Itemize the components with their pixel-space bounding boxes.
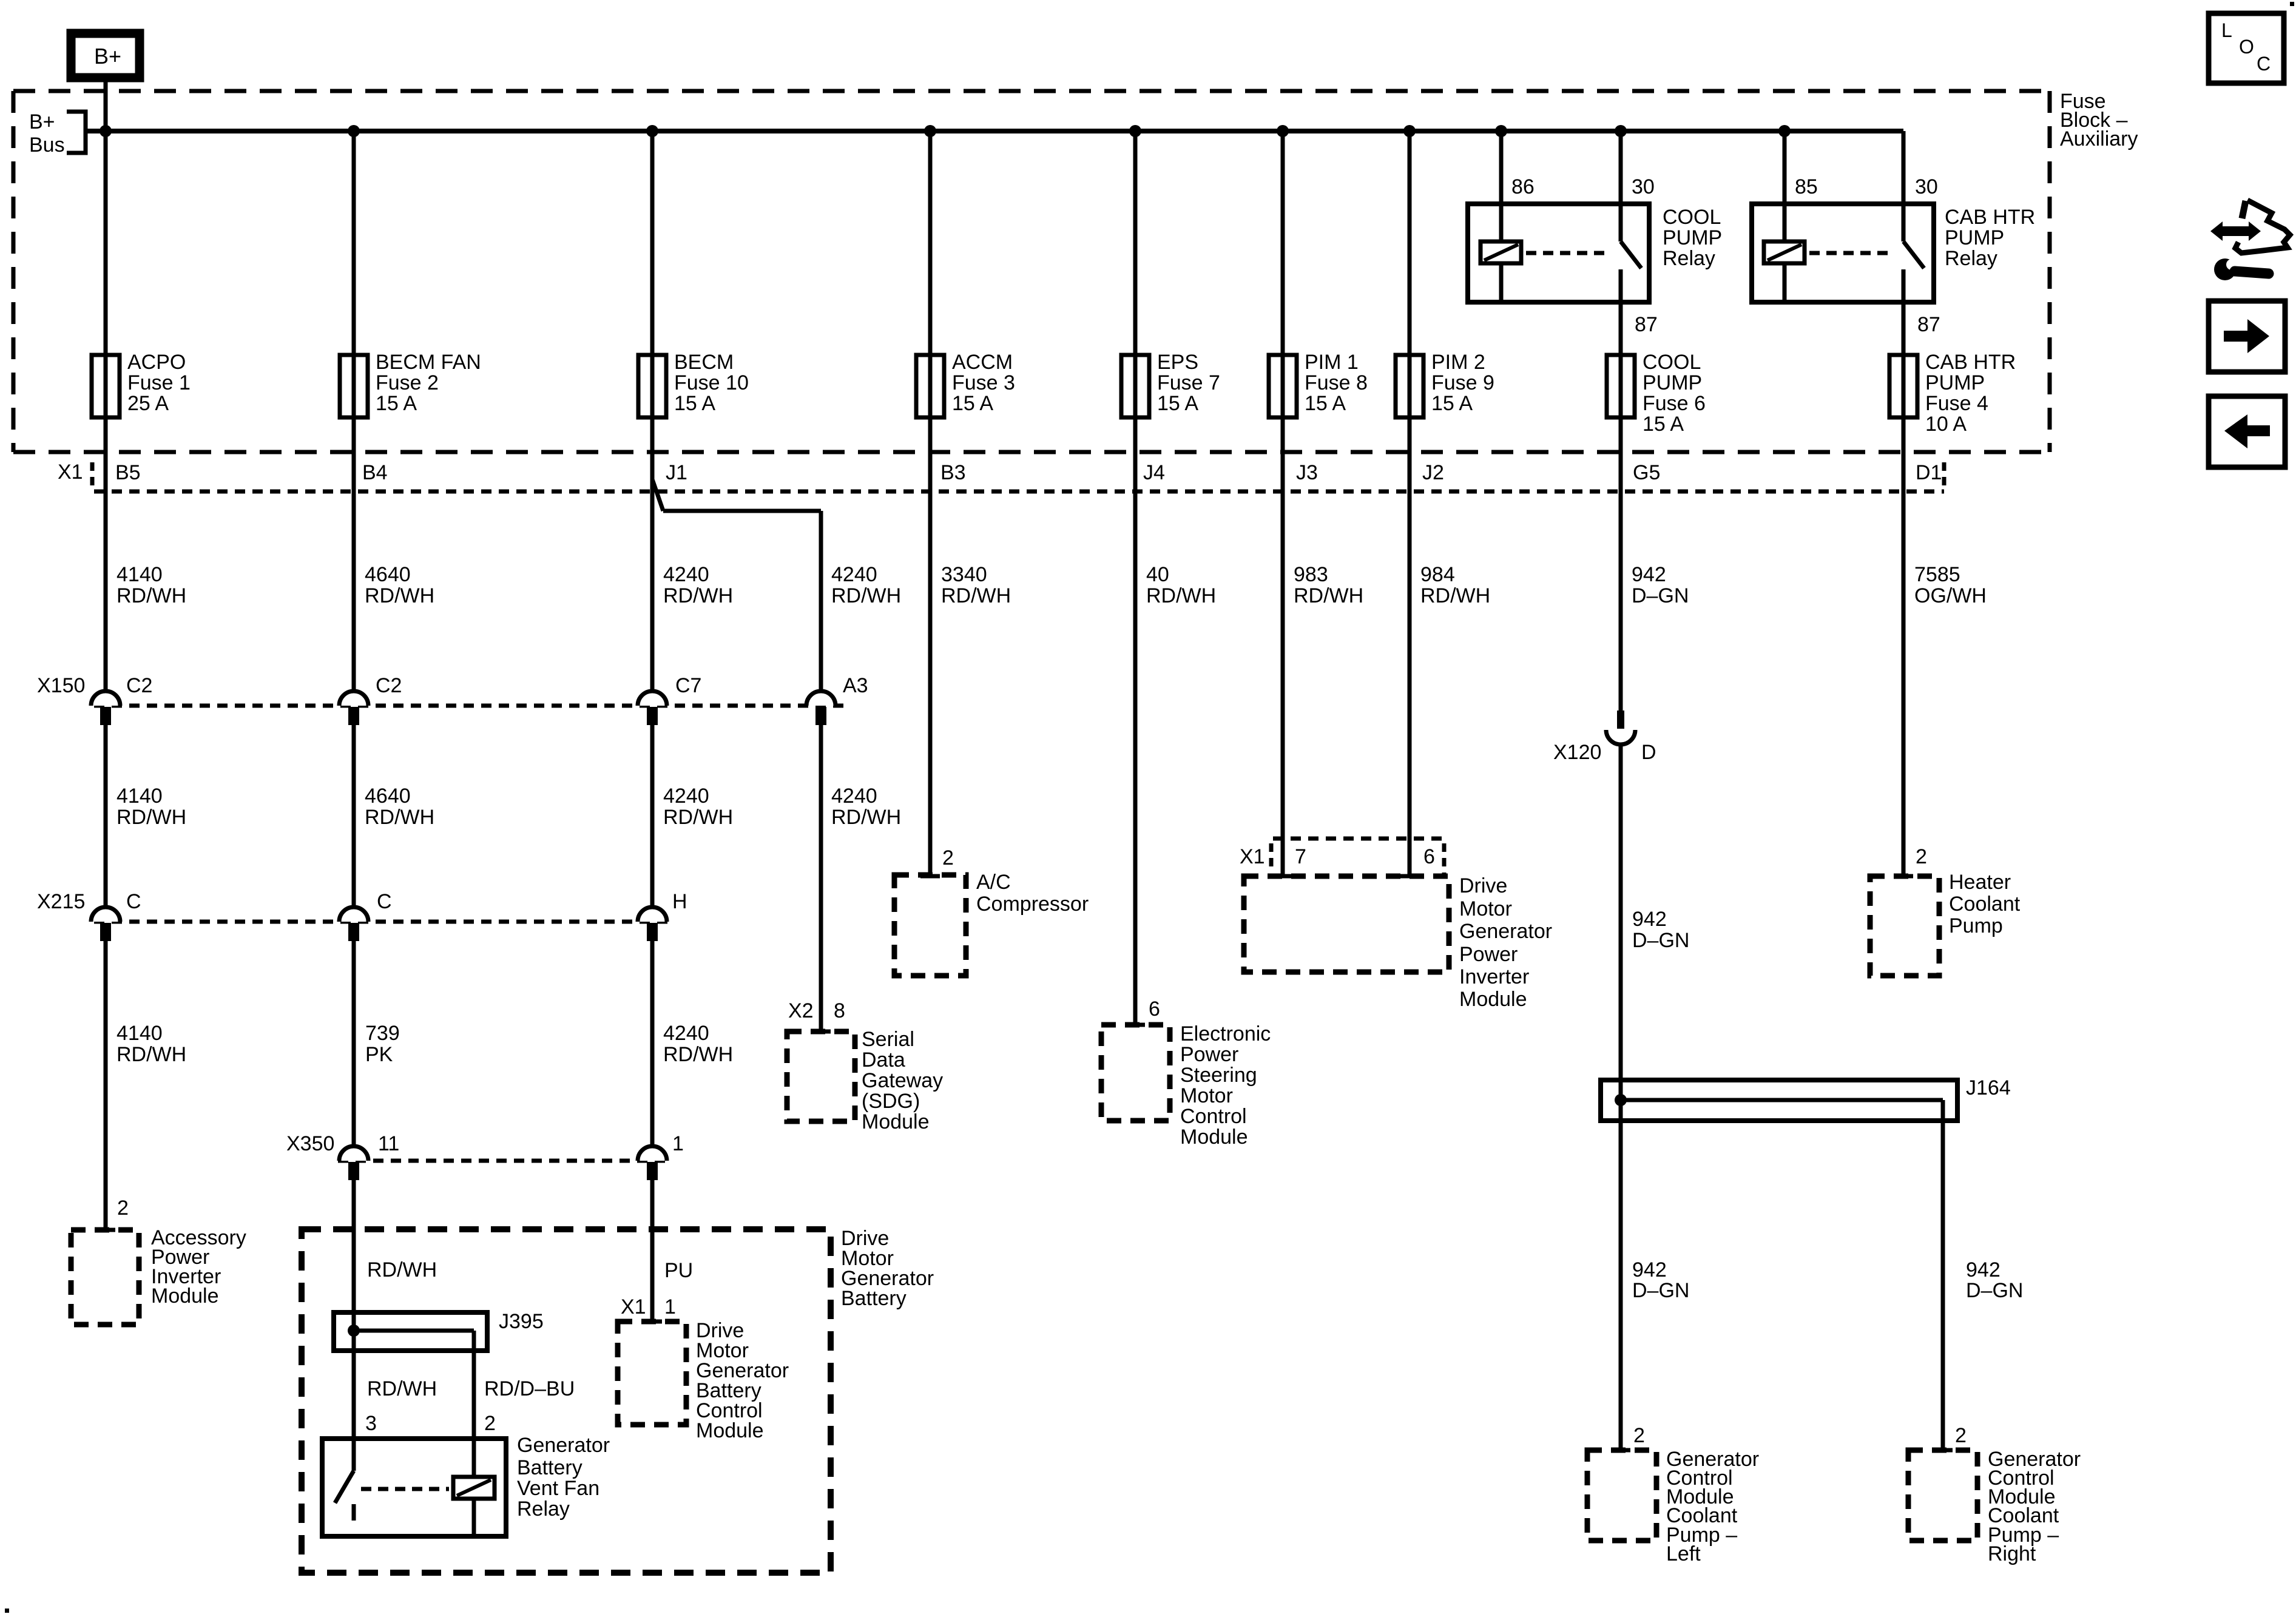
- svg-text:BECM FAN: BECM FAN: [376, 351, 481, 374]
- pin label X2 8 (SDG module): [788, 999, 845, 1022]
- relay Generator Battery Vent Fan box: [322, 1439, 506, 1536]
- svg-text:H: H: [672, 890, 687, 913]
- pin label 2 (pump right): [1955, 1424, 1967, 1447]
- svg-text:C7: C7: [675, 674, 701, 697]
- label circuit 40 RD/WH: [1146, 563, 1216, 607]
- pin label 86: [1511, 175, 1535, 198]
- junction on bus (cab relay coil): [1778, 125, 1791, 137]
- label A/C Compressor: [976, 871, 1089, 916]
- connector X150 terminal C2 (4640): [339, 691, 368, 725]
- svg-text:Battery: Battery: [517, 1456, 582, 1479]
- label Drive Motor Generator Power Inverter Module: [1459, 874, 1552, 1011]
- svg-text:942: 942: [1632, 563, 1666, 586]
- label circuit 4140 RD/WH (top): [116, 563, 186, 607]
- svg-text:Module: Module: [151, 1284, 219, 1308]
- svg-text:6: 6: [1423, 845, 1435, 868]
- svg-text:942: 942: [1632, 1258, 1667, 1281]
- label circuit 3340 RD/WH: [941, 563, 1011, 607]
- svg-text:C: C: [2257, 53, 2271, 75]
- svg-text:Serial: Serial: [862, 1028, 914, 1051]
- relay switch lower stub (vent fan relay): [352, 1504, 356, 1521]
- svg-text:Vent Fan: Vent Fan: [517, 1477, 599, 1500]
- relay coil (vent fan relay): [453, 1477, 495, 1499]
- svg-text:ACCM: ACCM: [952, 351, 1013, 374]
- wire relay coil feed 86 (cool pump): [1499, 131, 1504, 302]
- svg-text:Electronic: Electronic: [1180, 1022, 1271, 1045]
- wire RD/WH X350 into battery to vent fan relay: [352, 1180, 356, 1471]
- label circuit 942 D-GN (bottom right): [1966, 1258, 2023, 1302]
- svg-text:J4: J4: [1143, 461, 1165, 484]
- svg-text:Power: Power: [1459, 943, 1518, 966]
- pin label C (X215 wire1): [126, 890, 141, 913]
- pin label G5 (X1 row): [1633, 461, 1660, 484]
- svg-text:C2: C2: [126, 674, 152, 697]
- svg-text:15 A: 15 A: [674, 392, 715, 415]
- svg-text:2: 2: [484, 1412, 496, 1435]
- label fuse Fuse 1 25 A: [127, 351, 191, 415]
- fuse F6 COOL PUMP: [1607, 355, 1635, 417]
- svg-text:Gateway: Gateway: [862, 1069, 943, 1092]
- label fuse Fuse 2 15 A: [376, 351, 481, 415]
- svg-text:7585: 7585: [1914, 563, 1960, 586]
- svg-text:4640: 4640: [365, 785, 411, 808]
- pin label A3 (X150): [843, 674, 868, 697]
- svg-text:RD/WH: RD/WH: [831, 584, 901, 607]
- wire relay 30 feed (cab htr pump): [1902, 131, 1906, 241]
- svg-text:D–GN: D–GN: [1632, 584, 1689, 607]
- relay switch blade (vent fan relay): [335, 1471, 354, 1503]
- svg-text:J164: J164: [1966, 1076, 2011, 1099]
- svg-text:Fuse 4: Fuse 4: [1925, 392, 1988, 415]
- junction on bus (cool relay coil): [1495, 125, 1507, 137]
- pin label 87 (cab htr pump relay): [1917, 313, 1940, 336]
- svg-text:C: C: [377, 890, 392, 913]
- pin label 85: [1795, 175, 1818, 198]
- pin label C2 (X150 wire1): [126, 674, 152, 697]
- svg-text:4240: 4240: [663, 563, 709, 586]
- wire branch 4240 RD/WH down to X150 A3: [819, 511, 823, 691]
- svg-text:Generator: Generator: [517, 1434, 610, 1457]
- label Electronic Power Steering Motor Control Module: [1180, 1022, 1271, 1149]
- label circuit 942 D-GN (bottom left): [1632, 1258, 1689, 1302]
- label circuit 4240 RD/WH (branch top): [831, 563, 901, 607]
- wire B+ bus: [86, 129, 1903, 133]
- label Generator Control Module Coolant Pump - Right: [1988, 1448, 2081, 1565]
- junction on bus (fuse3): [924, 125, 936, 137]
- label connector X1: [58, 461, 83, 484]
- fuse F7 EPS: [1121, 355, 1149, 417]
- label wire RD/WH (above J395): [367, 1258, 437, 1281]
- label Accessory Power Inverter Module: [151, 1226, 246, 1308]
- wire 739 PK X215 to X350: [352, 941, 356, 1146]
- pin label 6 (EPS module): [1149, 998, 1160, 1021]
- junction block J395: [334, 1312, 487, 1351]
- label connector X350: [286, 1132, 334, 1155]
- svg-text:942: 942: [1632, 908, 1667, 931]
- label circuit 4240 RD/WH (col3 bottom): [663, 1022, 733, 1066]
- label circuit 4240 RD/WH (col3 middle): [663, 785, 733, 829]
- svg-text:RD/WH: RD/WH: [1146, 584, 1216, 607]
- junction on bus (cool relay 30): [1615, 125, 1627, 137]
- label connector X150: [37, 674, 85, 697]
- svg-text:4240: 4240: [663, 785, 709, 808]
- connector X215 terminal H: [638, 907, 667, 941]
- relay coil-switch dashed link (cab htr pump relay): [1809, 251, 1891, 255]
- fuse F1 ACPO: [92, 355, 120, 417]
- svg-text:Relay: Relay: [517, 1497, 570, 1521]
- icon arrow right box: [2209, 301, 2285, 372]
- svg-text:PU: PU: [664, 1259, 693, 1282]
- svg-text:C: C: [126, 890, 141, 913]
- label circuit 4140 RD/WH (middle): [116, 785, 186, 829]
- svg-text:Bus: Bus: [29, 133, 65, 157]
- svg-text:Fuse 10: Fuse 10: [674, 371, 749, 394]
- pin label 3 (vent fan relay): [365, 1412, 377, 1435]
- svg-text:D1: D1: [1916, 461, 1942, 484]
- label Serial Data Gateway (SDG) Module: [862, 1028, 943, 1133]
- junction on bus (fuse8): [1277, 125, 1289, 137]
- junction on bus (fuse7): [1129, 125, 1141, 137]
- fuse block - auxiliary dashed border: [13, 91, 2050, 452]
- pin label X1 1 (battery control module): [621, 1295, 676, 1318]
- junction block J164: [1601, 1080, 1957, 1121]
- SDG module dashed box: [787, 1031, 855, 1121]
- label fuse Fuse 10 15 A: [674, 351, 749, 415]
- svg-text:30: 30: [1915, 175, 1938, 198]
- svg-text:1: 1: [664, 1295, 676, 1318]
- label circuit 983 RD/WH: [1294, 563, 1363, 607]
- svg-text:15 A: 15 A: [952, 392, 993, 415]
- svg-text:Fuse 6: Fuse 6: [1643, 392, 1706, 415]
- label circuit 4240 RD/WH (branch middle): [831, 785, 901, 829]
- label circuit 942 D-GN (below X120): [1632, 908, 1689, 952]
- junction dot in J164: [1615, 1094, 1627, 1106]
- svg-text:X1: X1: [58, 461, 83, 484]
- svg-text:PK: PK: [365, 1043, 393, 1066]
- svg-text:4140: 4140: [116, 563, 163, 586]
- svg-text:RD/WH: RD/WH: [116, 806, 186, 829]
- wire relay 87 output to fuse 4: [1894, 269, 1913, 876]
- label wire PU: [664, 1259, 693, 1282]
- wire 4140 RD/WH X215 to accessory power inverter module: [96, 941, 115, 1230]
- svg-text:A3: A3: [843, 674, 868, 697]
- label Heater Coolant Pump: [1949, 871, 2021, 937]
- svg-text:Battery: Battery: [841, 1287, 907, 1310]
- svg-text:2: 2: [1955, 1424, 1967, 1447]
- svg-text:PIM 2: PIM 2: [1431, 351, 1485, 374]
- pin label B3 (X1 row): [940, 461, 966, 484]
- wire PU X350 to battery control module: [643, 1180, 662, 1322]
- relay switch blade (cool pump relay): [1621, 241, 1641, 268]
- svg-text:RD/WH: RD/WH: [116, 1043, 186, 1066]
- svg-text:Coolant: Coolant: [1949, 893, 2021, 916]
- svg-text:RD/WH: RD/WH: [941, 584, 1011, 607]
- svg-text:Motor: Motor: [1180, 1084, 1233, 1107]
- svg-text:30: 30: [1632, 175, 1655, 198]
- connector X350 terminal 1: [638, 1146, 667, 1180]
- svg-text:RD/WH: RD/WH: [365, 806, 434, 829]
- icon view direction (car outline with arrows and wrench): [2210, 200, 2290, 280]
- connector X215 terminal C (4140): [91, 907, 120, 941]
- svg-text:O: O: [2239, 36, 2254, 58]
- svg-text:D–GN: D–GN: [1632, 929, 1689, 952]
- fuse F9 PIM 2: [1396, 355, 1423, 417]
- fuse F4 CAB HTR PUMP: [1889, 355, 1917, 417]
- connector X150 terminal C2 (4140): [91, 691, 120, 725]
- label circuit 4240 RD/WH (col3 top): [663, 563, 733, 607]
- pin label 30 (cab htr pump relay): [1915, 175, 1938, 198]
- label fuse Fuse 4 10 A: [1925, 351, 2016, 436]
- svg-text:B4: B4: [362, 461, 388, 484]
- label fuse Fuse 7 15 A: [1157, 351, 1220, 415]
- svg-text:ACPO: ACPO: [127, 351, 186, 374]
- label circuit 739 PK: [365, 1022, 400, 1066]
- wire branch 4240 RD/WH horizontal: [663, 509, 821, 513]
- wire 4240 RD/WH X215 to X350: [650, 941, 655, 1146]
- relay COOL PUMP box: [1468, 204, 1649, 302]
- svg-text:Module: Module: [1459, 988, 1527, 1011]
- svg-text:4240: 4240: [831, 563, 877, 586]
- svg-text:PUMP: PUMP: [1663, 226, 1722, 249]
- svg-text:RD/WH: RD/WH: [831, 806, 901, 829]
- svg-text:D–GN: D–GN: [1966, 1279, 2023, 1302]
- label fuse Fuse 3 15 A: [952, 351, 1015, 415]
- relay coil (cab htr pump relay): [1764, 241, 1805, 263]
- wire branch kink below J1: [652, 479, 663, 511]
- wire 4240 RD/WH X150 to X215: [650, 725, 655, 907]
- svg-text:2: 2: [1916, 845, 1927, 868]
- connector X1 band (power inverter module): [1271, 839, 1444, 874]
- svg-text:X215: X215: [37, 890, 85, 913]
- label connector X120 and pin D: [1553, 741, 1656, 764]
- svg-text:3: 3: [365, 1412, 377, 1435]
- relay coil (cool pump relay): [1481, 241, 1521, 263]
- label fuse Fuse 9 15 A: [1431, 351, 1494, 415]
- svg-text:Module: Module: [1180, 1126, 1248, 1149]
- svg-text:Fuse 2: Fuse 2: [376, 371, 439, 394]
- wire 4140 RD/WH fuse1 to X150: [104, 131, 108, 691]
- svg-text:Fuse 7: Fuse 7: [1157, 371, 1220, 394]
- svg-text:Fuse 3: Fuse 3: [952, 371, 1015, 394]
- svg-text:Inverter: Inverter: [1459, 965, 1529, 988]
- svg-text:15 A: 15 A: [1431, 392, 1473, 415]
- connector X350 terminal 11: [339, 1146, 368, 1180]
- svg-text:6: 6: [1149, 998, 1160, 1021]
- svg-text:Fuse 1: Fuse 1: [127, 371, 191, 394]
- label junction block J395: [499, 1310, 544, 1333]
- svg-text:Module: Module: [696, 1419, 764, 1442]
- svg-text:Auxiliary: Auxiliary: [2060, 127, 2138, 150]
- wire relay 87 output to fuse 6: [1619, 269, 1623, 711]
- svg-text:PUMP: PUMP: [1925, 371, 1985, 394]
- wire J395 internal branch: [354, 1329, 474, 1333]
- svg-text:RD/WH: RD/WH: [367, 1377, 437, 1400]
- pin label 1 (X350): [672, 1132, 684, 1155]
- pin label J1 (X1 row): [666, 461, 687, 484]
- wire 4640 RD/WH fuse2 to X150: [352, 131, 356, 691]
- svg-text:BECM: BECM: [674, 351, 734, 374]
- svg-text:4640: 4640: [365, 563, 411, 586]
- svg-text:RD/WH: RD/WH: [367, 1258, 437, 1281]
- svg-text:Fuse 9: Fuse 9: [1431, 371, 1494, 394]
- generator control module coolant pump right dashed box: [1908, 1450, 1977, 1541]
- svg-text:B+: B+: [29, 110, 55, 133]
- svg-text:PIM 1: PIM 1: [1305, 351, 1359, 374]
- pin label H (X215): [672, 890, 687, 913]
- svg-text:RD/WH: RD/WH: [663, 1043, 733, 1066]
- label wire RD/D-BU: [484, 1377, 575, 1400]
- svg-text:984: 984: [1420, 563, 1455, 586]
- connector X215 row dashed line: [94, 920, 667, 924]
- wire relay coil feed 85 (cab htr pump): [1783, 131, 1787, 302]
- svg-text:942: 942: [1966, 1258, 2001, 1281]
- svg-text:PUMP: PUMP: [1643, 371, 1702, 394]
- svg-text:B5: B5: [115, 461, 141, 484]
- pin label C2 (X150 wire2): [376, 674, 402, 697]
- pin label 2 (A/C compressor): [942, 846, 954, 869]
- pin label B4 (X1 row): [362, 461, 388, 484]
- label fuse Fuse 6 15 A: [1643, 351, 1706, 436]
- svg-text:D: D: [1641, 741, 1656, 764]
- A/C compressor dashed box: [894, 875, 966, 976]
- svg-text:COOL: COOL: [1643, 351, 1701, 374]
- label connector X215: [37, 890, 85, 913]
- label circuit 984 RD/WH: [1420, 563, 1490, 607]
- svg-text:RD/WH: RD/WH: [365, 584, 434, 607]
- wire 40 RD/WH fuse7 to EPS module: [1126, 131, 1145, 1025]
- svg-text:X1: X1: [1240, 845, 1265, 868]
- svg-text:85: 85: [1795, 175, 1818, 198]
- svg-text:C2: C2: [376, 674, 402, 697]
- generator control module coolant pump left dashed box: [1587, 1450, 1656, 1541]
- svg-text:15 A: 15 A: [1157, 392, 1198, 415]
- fuse F2 BECM FAN: [340, 355, 368, 417]
- pin label J4 (X1 row): [1143, 461, 1165, 484]
- svg-text:X350: X350: [286, 1132, 334, 1155]
- svg-text:L: L: [2221, 19, 2232, 41]
- page artifact dot top-right: [2290, 2, 2294, 6]
- svg-text:X2: X2: [788, 999, 814, 1022]
- svg-text:40: 40: [1146, 563, 1169, 586]
- junction dot in J395: [348, 1325, 360, 1337]
- node B+ Bus bracket: [29, 110, 86, 157]
- svg-text:4140: 4140: [116, 1022, 163, 1045]
- label fuse Fuse 8 15 A: [1305, 351, 1368, 415]
- svg-text:Steering: Steering: [1180, 1064, 1257, 1087]
- pin label J2 (X1 row): [1422, 461, 1444, 484]
- svg-text:10 A: 10 A: [1925, 413, 1967, 436]
- svg-text:7: 7: [1295, 845, 1306, 868]
- svg-text:86: 86: [1511, 175, 1535, 198]
- svg-text:J3: J3: [1296, 461, 1318, 484]
- svg-text:RD/WH: RD/WH: [663, 806, 733, 829]
- drive motor generator battery control module dashed box: [618, 1322, 686, 1425]
- wire relay 30 feed (cool pump): [1619, 131, 1623, 241]
- label CAB HTR PUMP Relay: [1945, 206, 2035, 270]
- label COOL PUMP Relay: [1663, 206, 1722, 270]
- svg-text:1: 1: [672, 1132, 684, 1155]
- pin label C (X215 wire2): [377, 890, 392, 913]
- svg-text:4140: 4140: [116, 785, 163, 808]
- wire RD/D-BU J395 to vent fan relay coil: [472, 1331, 476, 1477]
- svg-text:G5: G5: [1633, 461, 1660, 484]
- svg-text:RD/WH: RD/WH: [1294, 584, 1363, 607]
- svg-text:Compressor: Compressor: [976, 893, 1089, 916]
- connector X350 row dashed line: [338, 1159, 667, 1163]
- relay coil-switch dashed link (cool pump relay): [1526, 251, 1608, 255]
- connector X1 row dashed lines: [92, 462, 1944, 491]
- svg-text:B3: B3: [940, 461, 966, 484]
- svg-text:Relay: Relay: [1663, 247, 1715, 270]
- pin label 30 (cool pump relay): [1632, 175, 1655, 198]
- svg-text:RD/D–BU: RD/D–BU: [484, 1377, 575, 1400]
- svg-text:15 A: 15 A: [376, 392, 417, 415]
- connector X150 terminal C7: [638, 691, 667, 725]
- wire 4140 RD/WH X150 to X215: [104, 725, 108, 907]
- svg-text:739: 739: [365, 1022, 400, 1045]
- label Generator Control Module Coolant Pump - Left: [1666, 1448, 1759, 1565]
- accessory power inverter module dashed box: [71, 1230, 139, 1325]
- relay CAB HTR PUMP box: [1752, 204, 1934, 302]
- svg-text:Generator: Generator: [1459, 920, 1552, 943]
- label circuit 4140 RD/WH (bottom): [116, 1022, 186, 1066]
- svg-text:87: 87: [1917, 313, 1940, 336]
- wire 4640 RD/WH X150 to X215: [352, 725, 356, 907]
- svg-text:2: 2: [117, 1197, 129, 1220]
- svg-text:J2: J2: [1422, 461, 1444, 484]
- wire 4240 RD/WH X150 to SDG module: [811, 725, 831, 1031]
- pin label 2 (pump left): [1633, 1424, 1645, 1447]
- svg-text:15 A: 15 A: [1643, 413, 1684, 436]
- svg-text:Fuse 8: Fuse 8: [1305, 371, 1368, 394]
- page artifact dot bottom-left: [5, 1609, 9, 1613]
- connector X120 inline: [1606, 711, 1635, 744]
- label Generator Battery Vent Fan Relay: [517, 1434, 610, 1521]
- svg-text:X120: X120: [1553, 741, 1601, 764]
- svg-text:J1: J1: [666, 461, 687, 484]
- fuse F8 PIM 1: [1269, 355, 1297, 417]
- svg-text:Data: Data: [862, 1048, 905, 1072]
- label circuit 942 D-GN (top): [1632, 563, 1689, 607]
- wire B+ feed to bus: [104, 79, 108, 131]
- svg-text:Control: Control: [1180, 1105, 1247, 1128]
- label junction block J164: [1966, 1076, 2011, 1099]
- relay switch blade (cab htr pump relay): [1903, 241, 1924, 268]
- label Drive Motor Generator Battery: [841, 1227, 934, 1310]
- label Drive Motor Generator Battery Control Module: [696, 1319, 789, 1442]
- junction on bus (fuse1): [100, 125, 112, 137]
- svg-text:J395: J395: [499, 1310, 544, 1333]
- pin label 87 (cool pump relay): [1635, 313, 1658, 336]
- svg-text:Motor: Motor: [1459, 897, 1512, 920]
- svg-text:25 A: 25 A: [127, 392, 169, 415]
- svg-text:3340: 3340: [941, 563, 987, 586]
- svg-text:2: 2: [942, 846, 954, 869]
- pin label 2 (accessory power inverter module): [117, 1197, 129, 1220]
- drive motor generator power inverter module dashed box: [1244, 876, 1449, 972]
- svg-text:Drive: Drive: [1459, 874, 1507, 897]
- svg-text:15 A: 15 A: [1305, 392, 1346, 415]
- label wire RD/WH (above vent fan relay): [367, 1377, 437, 1400]
- svg-text:983: 983: [1294, 563, 1328, 586]
- svg-text:RD/WH: RD/WH: [1420, 584, 1490, 607]
- svg-text:(SDG): (SDG): [862, 1090, 920, 1113]
- wire 942 D-GN J164 to pump right: [1933, 1100, 1953, 1450]
- label circuit 4640 RD/WH (middle): [365, 785, 434, 829]
- svg-text:Right: Right: [1988, 1542, 2036, 1565]
- svg-text:EPS: EPS: [1157, 351, 1198, 374]
- drive motor generator battery outer dashed box: [302, 1229, 831, 1573]
